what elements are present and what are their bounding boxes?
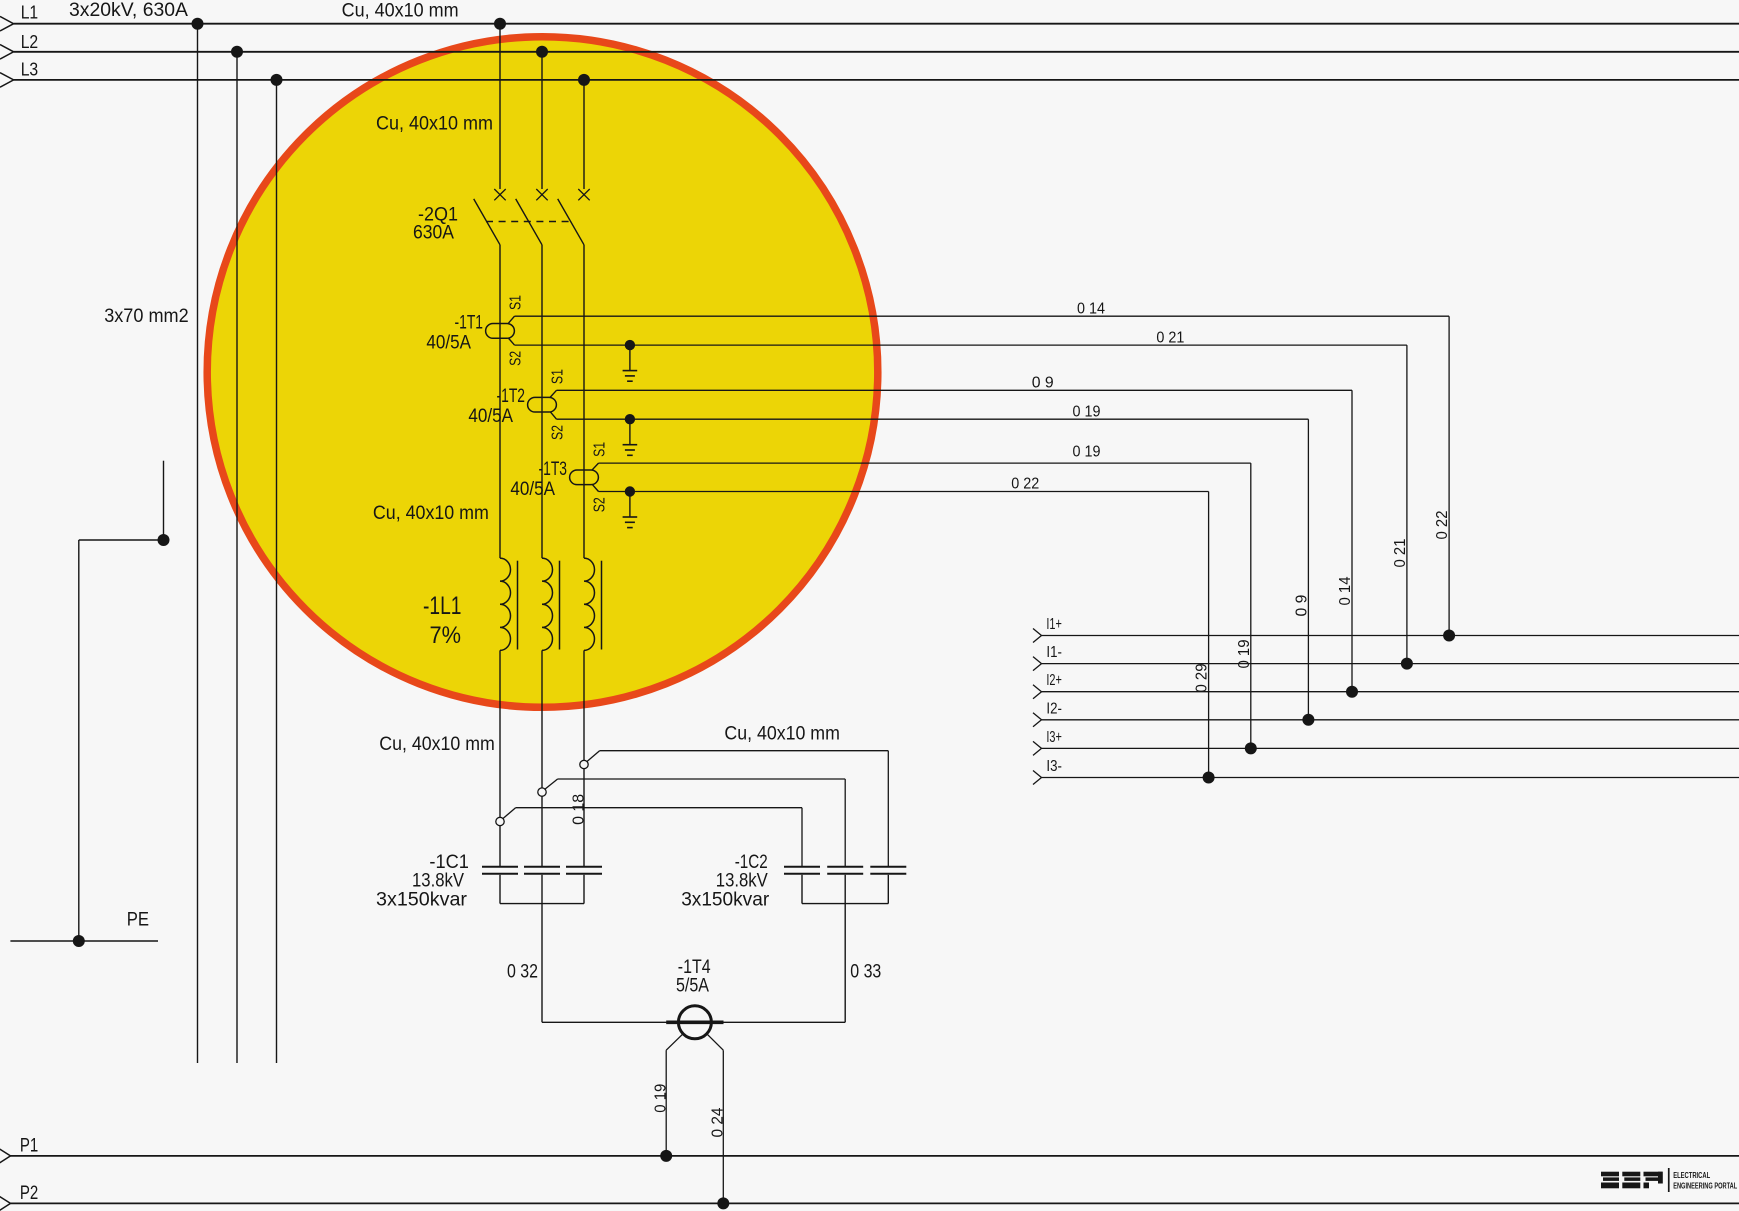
wire tap from L3 down (x=276.5) <box>276 80 278 1063</box>
junction drop on I3- <box>1203 772 1215 784</box>
svg-text:40/5A: 40/5A <box>426 332 471 353</box>
svg-text:3x20kV, 630A: 3x20kV, 630A <box>69 0 188 21</box>
svg-text:I1-: I1- <box>1046 644 1062 661</box>
wire 1C1 star bar <box>500 903 584 905</box>
svg-text:3x70 mm2: 3x70 mm2 <box>104 306 189 327</box>
junction drop on I2+ <box>1346 686 1358 698</box>
bus P2 <box>0 1196 1739 1210</box>
reactor -1L1 core bar 1 <box>517 561 519 650</box>
wire tap from L2 down (x=237) <box>236 52 238 1063</box>
wire 1T1 S2 earth stem <box>629 345 631 371</box>
wire drop 0 14 at x=1352.0 <box>1351 390 1353 691</box>
wire drop 0 22 at x=1449.1 <box>1448 316 1450 635</box>
wire feeder to 1C2 (1) vertical <box>801 808 803 866</box>
disconnector -2Q1 pole 2 blade <box>516 199 542 245</box>
capacitor -1C1 unit 3 <box>566 867 602 904</box>
disconnector -2Q1 pole 1 blade <box>474 199 500 245</box>
wire 1T1 S1 lead <box>508 316 1449 323</box>
capacitor -1C2 unit 2 <box>827 867 863 904</box>
svg-text:-1T3: -1T3 <box>539 459 568 480</box>
junction drop on I1- <box>1401 658 1413 670</box>
terminal line I1- <box>1033 657 1739 671</box>
wire feeder to 1C2 (1) horizontal <box>516 807 802 809</box>
reactor -1L1 core bar 3 <box>601 561 603 650</box>
svg-text:0 18: 0 18 <box>570 794 587 825</box>
svg-text:3x150kvar: 3x150kvar <box>376 889 468 910</box>
wire pole 3 reactor to 1C1 <box>583 650 585 866</box>
junction on L3 at x=276.5 <box>271 74 283 86</box>
svg-text:0 21: 0 21 <box>1392 538 1409 567</box>
bus P1 <box>0 1149 1739 1163</box>
disconnector -2Q1 pole 1 contact mark <box>494 189 505 200</box>
svg-text:0 22: 0 22 <box>1434 510 1451 539</box>
disconnector -2Q1 pole 3 blade <box>558 199 584 245</box>
svg-text:S2: S2 <box>550 425 567 440</box>
wire branch tap diagonal pole->1C2 (2) <box>545 779 558 789</box>
svg-text:0 14: 0 14 <box>1337 576 1354 605</box>
svg-text:0 24: 0 24 <box>709 1107 726 1137</box>
junction drop on I3+ <box>1245 742 1257 754</box>
svg-text:PE: PE <box>127 910 149 931</box>
terminal line I3- <box>1033 771 1739 785</box>
junction on L2 at x=237 <box>231 46 243 58</box>
terminal line I2+ <box>1033 685 1739 699</box>
svg-text:I1+: I1+ <box>1046 616 1062 633</box>
svg-text:3x150kvar: 3x150kvar <box>681 889 770 910</box>
wire feeder to 1C2 (2) horizontal <box>558 778 846 780</box>
svg-text:0 19: 0 19 <box>1073 403 1101 420</box>
svg-text:I3-: I3- <box>1046 758 1062 775</box>
ground for 1T1 S2 <box>623 371 638 382</box>
wire L3 to switch pole 3 <box>583 80 585 189</box>
junction on L1 at x=500 <box>494 18 506 30</box>
wire feeder to 1C2 (3) horizontal <box>600 750 889 752</box>
junction 1T2 S2 to earth <box>625 414 635 424</box>
ground for 1T3 S2 <box>623 517 638 528</box>
wire tap from L1 down (x=197.5) <box>197 24 199 1063</box>
terminal circle on pole at y=792.1 <box>538 788 546 796</box>
junction 1T1 S2 to earth <box>625 340 635 350</box>
svg-text:0 22: 0 22 <box>1011 475 1039 492</box>
wire 1T2 S2 lead <box>551 412 1309 419</box>
svg-text:40/5A: 40/5A <box>468 406 513 427</box>
EEP logo <box>1601 1168 1670 1192</box>
svg-text:630A: 630A <box>413 223 454 244</box>
current transformer -1T2 40/5A primary oval <box>528 397 557 412</box>
wire PE riser down <box>78 540 80 941</box>
svg-text:ENGINEERING PORTAL: ENGINEERING PORTAL <box>1673 1181 1737 1190</box>
disconnector -2Q1 gang link (dashed) <box>486 221 569 223</box>
svg-text:L2: L2 <box>21 32 39 52</box>
wire branch tap diagonal pole->1C2 (3) <box>587 751 600 762</box>
svg-text:S2: S2 <box>592 497 609 512</box>
wire 1C2 star bar <box>802 903 888 905</box>
junction on PE <box>73 935 85 947</box>
svg-text:7%: 7% <box>430 622 462 649</box>
junction on L3 at x=584 <box>578 74 590 86</box>
wire 1T1 S2 lead <box>509 338 1407 345</box>
disconnector -2Q1 pole 2 contact mark <box>536 189 547 200</box>
junction PE corner <box>158 534 170 546</box>
svg-text:0 32: 0 32 <box>507 961 538 982</box>
svg-text:L3: L3 <box>21 60 39 80</box>
current transformer -1T4 primary bar <box>666 1020 723 1024</box>
svg-text:S2: S2 <box>508 351 525 366</box>
svg-text:0 9: 0 9 <box>1032 375 1054 392</box>
current transformer -1T3 40/5A primary oval <box>570 470 599 485</box>
capacitor -1C2 unit 1 <box>784 867 820 904</box>
reactor -1L1 winding 1 <box>500 558 511 650</box>
wire pole 2 switch to reactor <box>541 245 543 558</box>
wire drop 0 29 at x=1208.6 <box>1208 492 1210 778</box>
wire drop 0 19 at x=1250.8 <box>1250 463 1252 748</box>
wire neutral link through 1T4 <box>542 1021 845 1023</box>
svg-text:0 9: 0 9 <box>1293 594 1310 616</box>
svg-text:-1T1: -1T1 <box>455 312 484 333</box>
junction on L1 at x=197.5 <box>192 18 204 30</box>
svg-text:I2-: I2- <box>1046 700 1062 717</box>
capacitor -1C1 unit 1 <box>482 867 518 904</box>
svg-text:5/5A: 5/5A <box>676 976 709 997</box>
svg-text:Cu, 40x10 mm: Cu, 40x10 mm <box>379 734 495 755</box>
svg-text:P2: P2 <box>20 1183 38 1204</box>
wire PE horizontal jog <box>79 539 164 541</box>
junction 1T3 S2 to earth <box>625 486 635 496</box>
svg-text:I2+: I2+ <box>1046 672 1062 689</box>
svg-text:ELECTRICAL: ELECTRICAL <box>1673 1171 1710 1180</box>
wire 1C2 neutral down <box>844 904 846 1023</box>
terminal line I1+ <box>1033 629 1739 643</box>
bus L1 <box>0 16 1739 31</box>
wire branch tap diagonal pole->1C2 (1) <box>503 808 516 819</box>
capacitor -1C2 unit 3 <box>870 867 906 904</box>
svg-text:0 21: 0 21 <box>1156 329 1184 346</box>
junction drop on I1+ <box>1443 630 1455 642</box>
svg-text:I3+: I3+ <box>1046 729 1062 746</box>
svg-text:Cu, 40x10 mm: Cu, 40x10 mm <box>342 1 459 22</box>
svg-text:0 19: 0 19 <box>652 1084 669 1113</box>
wire feeder to 1C2 (2) vertical <box>844 779 846 866</box>
svg-text:P1: P1 <box>20 1136 38 1157</box>
bus L2 <box>0 45 1739 60</box>
wire feeder to 1C2 (3) vertical <box>887 751 889 866</box>
bus PE <box>10 940 158 942</box>
wire 1C1 neutral down <box>541 904 543 1023</box>
junction drop on I2- <box>1302 714 1314 726</box>
svg-text:L1: L1 <box>21 3 39 23</box>
wire 1T3 S1 lead <box>592 463 1251 470</box>
svg-text:S1: S1 <box>550 369 567 384</box>
ground for 1T2 S2 <box>623 445 638 456</box>
highlight circle (yellow zone marker) <box>207 37 878 708</box>
svg-text:40/5A: 40/5A <box>510 479 555 500</box>
capacitor -1C1 unit 2 <box>524 867 560 904</box>
bus L3 <box>0 73 1739 88</box>
wire PE stub riser <box>163 461 165 540</box>
current transformer -1T1 40/5A primary oval <box>486 324 515 339</box>
reactor -1L1 winding 3 <box>584 558 594 650</box>
wire 1T2 S1 lead <box>550 390 1352 397</box>
wire pole 1 switch to reactor <box>499 245 501 558</box>
svg-text:13.8kV: 13.8kV <box>716 870 768 891</box>
reactor -1L1 core bar 2 <box>559 561 561 650</box>
wire 1T3 S2 lead <box>593 485 1209 492</box>
svg-text:0 29: 0 29 <box>1194 663 1211 692</box>
svg-text:0 14: 0 14 <box>1077 301 1105 318</box>
svg-text:-1L1: -1L1 <box>423 592 462 620</box>
wire pole 2 reactor to 1C1 <box>541 650 543 866</box>
wire 1T2 S2 earth stem <box>629 419 631 445</box>
svg-text:S1: S1 <box>592 442 609 457</box>
svg-text:13.8kV: 13.8kV <box>412 870 464 891</box>
wire drop 0 21 at x=1406.9 <box>1406 345 1408 663</box>
junction 1T4-S2 on P2 <box>717 1197 729 1209</box>
svg-text:-1T2: -1T2 <box>497 386 526 407</box>
terminal line I3+ <box>1033 741 1739 755</box>
current transformer -1T4 5/5A (circle) <box>678 1006 711 1039</box>
svg-text:0 33: 0 33 <box>850 961 881 982</box>
wire 1T4 S1 lead to P1 <box>666 1034 683 1156</box>
wire L1 to switch pole 1 <box>499 24 501 189</box>
terminal line I2- <box>1033 713 1739 727</box>
svg-text:Cu, 40x10 mm: Cu, 40x10 mm <box>373 503 489 524</box>
wire 1T3 S2 earth stem <box>629 492 631 518</box>
terminal circle on pole at y=821.5 <box>496 817 504 825</box>
terminal circle on pole at y=764.5 <box>580 760 588 768</box>
wire pole 3 switch to reactor <box>583 245 585 558</box>
svg-text:0 19: 0 19 <box>1073 444 1101 461</box>
svg-text:S1: S1 <box>508 295 525 310</box>
svg-text:Cu, 40x10 mm: Cu, 40x10 mm <box>724 724 840 745</box>
reactor -1L1 winding 2 <box>542 558 553 650</box>
junction 1T4-S1 on P1 <box>660 1150 672 1162</box>
junction on L2 at x=542 <box>536 46 548 58</box>
svg-text:Cu, 40x10 mm: Cu, 40x10 mm <box>376 114 493 135</box>
wire L2 to switch pole 2 <box>541 52 543 189</box>
wire 1T4 S2 lead to P2 <box>707 1034 724 1204</box>
wire pole 1 reactor to 1C1 <box>499 650 501 866</box>
disconnector -2Q1 pole 3 contact mark <box>578 189 589 200</box>
wire drop 0 9 at x=1308.4 <box>1307 419 1309 720</box>
